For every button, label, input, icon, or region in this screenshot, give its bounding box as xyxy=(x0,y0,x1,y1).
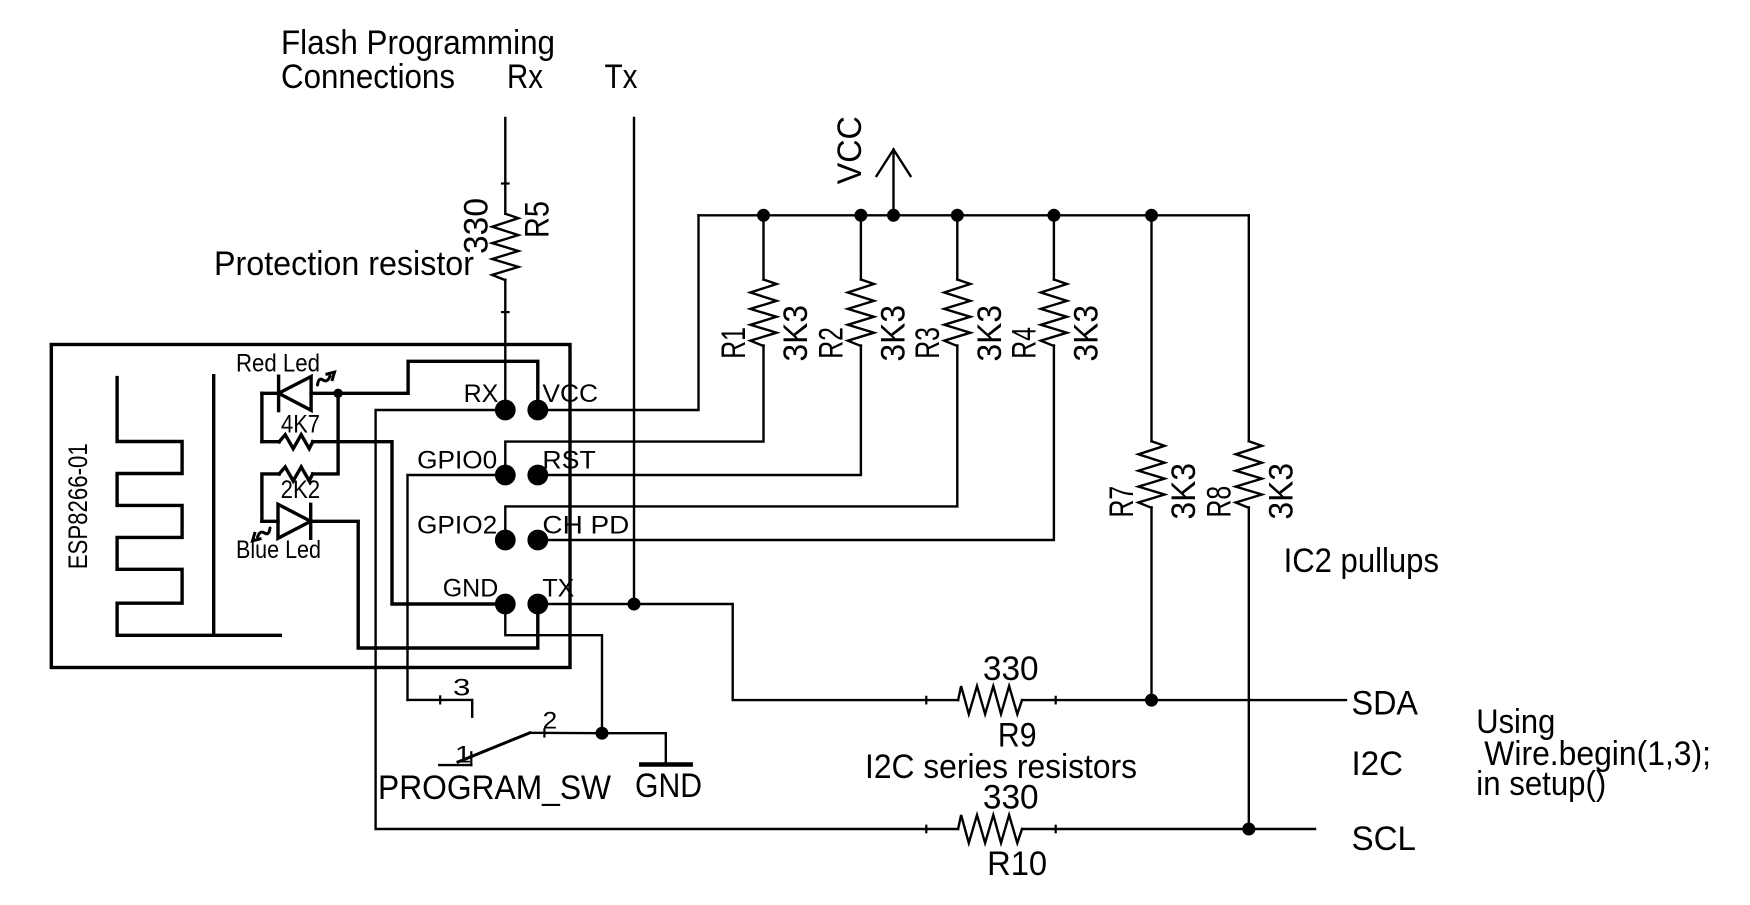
power VCC symbol xyxy=(877,150,911,216)
svg-text:RX: RX xyxy=(464,380,499,408)
wire red led left xyxy=(260,393,263,441)
label Rx xyxy=(507,58,543,96)
value 3K3 R1 xyxy=(777,305,815,362)
pin left col xyxy=(495,594,516,615)
wire R2 to RST xyxy=(538,346,861,476)
wire led node to VCC pin xyxy=(338,361,538,410)
label I2C series resistors xyxy=(865,748,1137,786)
refdes R5 xyxy=(519,201,557,238)
pin right col xyxy=(527,530,548,551)
pin label GPIO0 xyxy=(417,447,497,475)
wire TX to SDA run xyxy=(538,604,927,700)
led D1 Red Led xyxy=(262,376,338,410)
svg-text:VCC: VCC xyxy=(831,116,869,184)
note in setup xyxy=(1476,765,1606,803)
resistor R3 xyxy=(944,280,970,347)
value 3K3 R7 xyxy=(1165,463,1203,520)
wire Rx to R5 xyxy=(504,118,506,214)
pin label RX xyxy=(464,380,499,408)
wire Tx drop xyxy=(633,118,635,604)
wire bus to R8 xyxy=(1248,215,1250,441)
junction bus R4 xyxy=(1047,209,1060,222)
svg-text:CH PD: CH PD xyxy=(542,512,629,540)
svg-text:3K3: 3K3 xyxy=(1165,463,1203,520)
wire R3 to GPIO2 xyxy=(505,346,957,541)
pin left col xyxy=(495,530,516,551)
svg-text:VCC: VCC xyxy=(542,380,598,408)
svg-text:R2: R2 xyxy=(813,327,851,359)
label Tx xyxy=(605,58,638,96)
junction bus VCC xyxy=(887,209,900,222)
pin right col xyxy=(527,465,548,486)
junction bus R7 xyxy=(1145,209,1158,222)
label GND ground xyxy=(635,767,702,805)
switch pin 3 stub xyxy=(408,696,473,716)
svg-text:3K3: 3K3 xyxy=(874,305,912,362)
pin left col xyxy=(495,400,516,421)
svg-text:330: 330 xyxy=(983,650,1039,688)
svg-text:2K2: 2K2 xyxy=(281,476,321,504)
svg-text:Connections: Connections xyxy=(281,58,455,96)
label SCL xyxy=(1352,820,1417,858)
svg-text:R7: R7 xyxy=(1103,486,1141,518)
svg-text:R1: R1 xyxy=(715,327,753,359)
svg-text:GPIO0: GPIO0 xyxy=(417,447,497,475)
label 2K2 xyxy=(281,476,321,504)
refdes R2 xyxy=(813,327,851,359)
pin number 1 xyxy=(455,741,471,768)
svg-text:3K3: 3K3 xyxy=(1067,305,1105,362)
ground symbol xyxy=(641,762,690,767)
svg-text:Tx: Tx xyxy=(605,58,638,96)
label VCC xyxy=(831,116,869,184)
junction R8 SCL xyxy=(1242,823,1255,836)
svg-text:R3: R3 xyxy=(909,327,947,359)
refdes R7 xyxy=(1103,486,1141,518)
value 330 R5 xyxy=(458,198,496,254)
wire GPIO0 to switch pin3 xyxy=(408,475,506,700)
switch SW1 lever xyxy=(458,733,530,762)
junction bus R1 xyxy=(757,209,770,222)
label IC2 pullups xyxy=(1284,542,1439,580)
resistor R10 xyxy=(926,815,1055,843)
wire bus to VCC pin xyxy=(538,215,699,410)
wire bus to R4 xyxy=(1053,215,1055,279)
svg-text:R8: R8 xyxy=(1201,486,1239,518)
resistor R2 xyxy=(848,280,874,347)
wire RX to SCL run xyxy=(376,410,927,829)
label Blue Led xyxy=(236,536,321,564)
pin label GND xyxy=(443,575,499,603)
resistor R5 xyxy=(492,214,518,281)
svg-text:Blue Led: Blue Led xyxy=(236,536,321,564)
svg-text:GND: GND xyxy=(635,767,702,805)
svg-text:RST: RST xyxy=(542,447,595,475)
pin right col xyxy=(527,400,548,421)
value 3K3 R2 xyxy=(874,305,912,362)
wire R10 to SCL xyxy=(1056,828,1315,830)
led D2 Blue Led xyxy=(262,504,311,538)
svg-text:3K3: 3K3 xyxy=(971,305,1009,362)
refdes R3 xyxy=(909,327,947,359)
value 3K3 R4 xyxy=(1067,305,1105,362)
resistor R7 xyxy=(1138,441,1164,508)
switch pin 1 stub xyxy=(439,752,471,765)
svg-text:R10: R10 xyxy=(987,845,1047,883)
svg-text:in setup(): in setup() xyxy=(1476,765,1606,803)
pin label TX xyxy=(542,575,574,603)
wire blue led to TX pin xyxy=(311,521,538,648)
wire R1 to GPIO0 xyxy=(505,346,763,476)
pin label RST xyxy=(542,447,595,475)
title line 2 xyxy=(281,58,455,96)
refdes R10 xyxy=(987,845,1047,883)
wire switch to ground xyxy=(602,733,666,764)
module box ESP8266-01 xyxy=(51,345,570,668)
svg-text:Red Led: Red Led xyxy=(236,350,320,378)
svg-text:SCL: SCL xyxy=(1352,820,1417,858)
refdes R9 xyxy=(998,716,1037,754)
junction R7 SDA xyxy=(1145,694,1158,707)
label I2C xyxy=(1352,745,1404,783)
pin number 2 xyxy=(543,708,558,735)
junction switch common xyxy=(596,727,609,740)
wire R7 to SDA xyxy=(1150,507,1152,700)
svg-text:PROGRAM_SW: PROGRAM_SW xyxy=(378,769,611,807)
resistor R4 xyxy=(1041,280,1067,347)
label PROGRAM_SW xyxy=(378,769,611,807)
svg-text:Rx: Rx xyxy=(507,58,543,96)
pin label CH_PD xyxy=(542,512,629,540)
refdes R8 xyxy=(1201,486,1239,518)
refdes R1 xyxy=(715,327,753,359)
label SDA xyxy=(1352,685,1419,723)
wire bus to R7 xyxy=(1150,215,1152,441)
wire 4K7 to GND pin xyxy=(313,442,506,604)
wire GND pin to switch node xyxy=(505,604,602,733)
svg-text:GND: GND xyxy=(443,575,499,603)
wire bus to R2 xyxy=(860,215,862,279)
light arrow Blue Led xyxy=(253,528,271,541)
label Red Led xyxy=(236,350,320,378)
pin label GPIO2 xyxy=(417,512,497,540)
svg-text:R4: R4 xyxy=(1006,327,1044,359)
resistor R1 xyxy=(750,280,776,347)
value 3K3 R8 xyxy=(1262,463,1300,520)
resistor R9 xyxy=(926,686,1055,714)
junction Tx-TX xyxy=(628,598,641,611)
wire R8 to SCL xyxy=(1248,507,1250,828)
svg-text:TX: TX xyxy=(542,575,574,603)
wire R9 to SDA xyxy=(1056,699,1346,701)
svg-text:3K3: 3K3 xyxy=(777,305,815,362)
note Wire.begin xyxy=(1484,735,1711,773)
resistor 4K7 xyxy=(262,435,313,449)
switch pin 2 stub xyxy=(530,730,602,737)
value 330 R10 xyxy=(983,779,1039,817)
svg-text:R5: R5 xyxy=(519,201,557,238)
junction bus R2 xyxy=(854,209,867,222)
label Protection resistor xyxy=(214,245,474,283)
note Using xyxy=(1476,703,1555,741)
svg-text:GPIO2: GPIO2 xyxy=(417,512,497,540)
wire bus to R3 xyxy=(956,215,958,279)
svg-text:IC2 pullups: IC2 pullups xyxy=(1284,542,1439,580)
pin label VCC xyxy=(542,380,598,408)
title line 1 xyxy=(281,24,555,62)
resistor R8 xyxy=(1236,441,1262,508)
svg-text:330: 330 xyxy=(983,779,1039,817)
junction bus R3 xyxy=(951,209,964,222)
pin tick R5 top xyxy=(502,182,509,184)
svg-text:SDA: SDA xyxy=(1352,685,1419,723)
pin number 3 xyxy=(453,675,470,702)
light arrow Red Led xyxy=(318,372,335,385)
wire led node to 2K2 xyxy=(313,393,338,474)
wire 2K2 left xyxy=(262,474,279,521)
label ESP8266-01 xyxy=(63,443,93,569)
value 330 R9 xyxy=(983,650,1039,688)
pin right col xyxy=(527,594,548,615)
value 3K3 R3 xyxy=(971,305,1009,362)
svg-text:3: 3 xyxy=(453,675,470,702)
svg-text:Protection resistor: Protection resistor xyxy=(214,245,474,283)
svg-text:2: 2 xyxy=(543,708,558,735)
resistor 2K2 xyxy=(279,467,313,481)
svg-text:ESP8266-01: ESP8266-01 xyxy=(63,443,93,569)
pin tick R5 bottom xyxy=(502,311,509,313)
antenna feed line xyxy=(212,376,215,636)
wire bus to R1 xyxy=(762,215,764,279)
junction red led node xyxy=(333,389,342,398)
antenna meander xyxy=(117,378,280,636)
svg-text:330: 330 xyxy=(458,198,496,254)
refdes R4 xyxy=(1006,327,1044,359)
pin left col xyxy=(495,465,516,486)
label 4K7 xyxy=(281,411,320,439)
svg-text:I2C: I2C xyxy=(1352,745,1404,783)
wire R5 to RX pin xyxy=(504,280,506,410)
wire VCC bus xyxy=(699,214,1249,216)
svg-text:Flash Programming: Flash Programming xyxy=(281,24,555,62)
wire R4 to CH_PD xyxy=(538,346,1054,541)
svg-text:3K3: 3K3 xyxy=(1262,463,1300,520)
svg-text:1: 1 xyxy=(455,741,471,768)
